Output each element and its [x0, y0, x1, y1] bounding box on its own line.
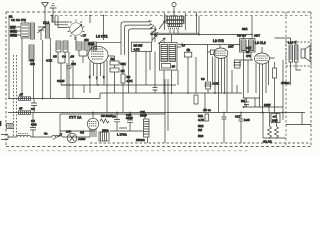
phono jack J1 [172, 2, 176, 16]
band switch S1 [10, 23, 29, 38]
output transformer T2 [288, 41, 298, 63]
svg-text:30K: 30K [121, 62, 127, 66]
wire: AVC segment y85 [61, 84, 176, 86]
capacitor C10 [126, 113, 133, 132]
svg-text:2: 2 [103, 75, 105, 79]
svg-text:0.05: 0.05 [244, 118, 250, 122]
capacitor C9 [112, 113, 120, 132]
wire: dashed bottom bus [90, 142, 311, 144]
resistor R4 [194, 95, 198, 104]
wires: power section [60, 79, 168, 143]
svg-text:C17: C17 [235, 115, 241, 119]
inductor on left bus [18, 93, 31, 101]
svg-text:C8: C8 [201, 77, 205, 81]
svg-text:1500Ω: 1500Ω [136, 138, 145, 142]
label bottom left [0, 121, 2, 126]
capacitor C8 on x207.5 [201, 77, 212, 89]
capacitor C17 [235, 113, 250, 144]
electrolytic C18 [271, 114, 280, 123]
label 470k right [281, 81, 290, 85]
IF transformer Z1 [159, 13, 185, 30]
svg-text:CH 9U: CH 9U [237, 34, 246, 38]
rectifier tube V4 CYY [69, 113, 109, 142]
wires: bottom right [263, 113, 286, 144]
pilot lamp [66, 130, 86, 143]
audio output tube V3 [246, 41, 270, 64]
svg-text:4.7K: 4.7K [46, 59, 53, 63]
wires: Z2 leads [164, 35, 181, 93]
oscillator coil L3 [29, 45, 34, 61]
svg-text:C1A: C1A [43, 21, 50, 25]
svg-text:L8 CY2: L8 CY2 [213, 39, 224, 43]
wire: right segment y107 [243, 106, 283, 108]
mains plug P1 [1, 135, 8, 140]
svg-text:B1: B1 [9, 15, 13, 19]
speaker module boundary [286, 42, 311, 66]
wire: left bus y98.5 [8, 98, 100, 100]
svg-text:JU: JU [172, 65, 176, 69]
pin labels V1 [89, 75, 105, 80]
svg-text:MΩ: MΩ [0, 121, 2, 126]
wires: right column [240, 60, 283, 113]
wires: V3 pins [256, 58, 275, 113]
IF transformer Z3 [237, 34, 260, 53]
antenna ANT [42, 3, 49, 23]
wire: vertical from rail x252 [251, 16, 253, 39]
wire: dashed gang link [13, 55, 15, 137]
svg-text:1/2W: 1/2W [264, 103, 271, 107]
wires: output transformer leads [275, 38, 302, 85]
wire: dashed gang link 2 [16, 55, 18, 137]
resistor box R5 under loop [132, 42, 152, 51]
svg-text:C1 C2 470: C1 C2 470 [11, 18, 26, 22]
svg-text:4F: 4F [19, 107, 23, 111]
loop antenna / osc tank L6 with tuning arrows [121, 20, 158, 55]
wires: loop leads to bus [129, 52, 147, 94]
capacitor C4 below bus [31, 99, 37, 127]
label L3 CK1 [96, 35, 108, 39]
svg-text:AK7: AK7 [228, 45, 234, 49]
svg-text:6A2: 6A2 [88, 42, 94, 46]
svg-text:4.7K: 4.7K [213, 82, 219, 86]
label row C1 C2 [9, 15, 26, 23]
wire: right border dashed [310, 12, 312, 147]
svg-text:C5: C5 [53, 55, 57, 59]
trimmer C5 [76, 42, 82, 50]
wire: speaker zone bottom [286, 113, 311, 125]
svg-text:30uF: 30uF [140, 114, 147, 118]
coil L5 [63, 41, 68, 52]
ground GND [50, 4, 57, 22]
wires: converter tube pins [90, 61, 107, 113]
wires: misc mid verticals [84, 43, 269, 113]
wire: bottom border dashed [6, 146, 311, 148]
svg-text:1M: 1M [198, 128, 203, 132]
wire: left border dashed [5, 12, 7, 147]
resistor R15 [275, 113, 279, 139]
wire: right segment y98 [243, 97, 260, 99]
wire: grid lead vertical x103.5 [103, 15, 105, 40]
capacitor box C19 [234, 60, 242, 68]
resistor R3 [121, 74, 134, 83]
svg-text:C9: C9 [112, 115, 116, 119]
wire: mains heater line [8, 136, 90, 138]
svg-text:10M: 10M [272, 119, 278, 123]
svg-text:4.7K: 4.7K [198, 118, 205, 122]
svg-text:30uF: 30uF [126, 116, 133, 120]
wire: ground bus y112.5 [8, 112, 305, 114]
svg-text:R8: R8 [241, 99, 245, 103]
wire: dashed partition at speaker section [285, 12, 287, 147]
svg-text:0.02: 0.02 [31, 123, 37, 127]
svg-text:SW2: SW2 [10, 34, 17, 38]
svg-text:C9 30uF: C9 30uF [101, 114, 112, 118]
svg-text:L9 CL2: L9 CL2 [255, 41, 266, 45]
electrolytic C11 [140, 110, 149, 137]
svg-text:L3 CK1: L3 CK1 [96, 35, 108, 39]
svg-text:C4: C4 [62, 55, 66, 59]
RF coil L2 [46, 24, 50, 38]
speaker SP [301, 46, 310, 62]
wire: vertical from rail x196.5 [196, 12, 198, 33]
label AC m [203, 108, 211, 112]
converter tube V1 6A2 [88, 42, 108, 64]
wires: R1-R3 connections [108, 56, 123, 113]
svg-text:4u: 4u [44, 132, 48, 136]
svg-text:.47: .47 [19, 93, 23, 97]
svg-text:470: 470 [30, 62, 35, 66]
svg-text:5: 5 [89, 75, 91, 79]
power unit box edge [60, 114, 165, 137]
svg-text:R1: R1 [111, 57, 115, 61]
IF transformer Z2 [158, 38, 177, 70]
wire: antenna feed left [8, 16, 10, 99]
svg-text:L 170Ω: L 170Ω [117, 133, 127, 137]
small resistors R1 R2 near V1 [110, 57, 127, 73]
svg-text:470: 470 [71, 62, 76, 66]
svg-text:7: 7 [96, 76, 98, 80]
capacitor C4b to mains [30, 113, 36, 138]
svg-text:AK7: AK7 [254, 34, 260, 38]
svg-text:A300: A300 [78, 137, 86, 141]
svg-text:4.7K: 4.7K [127, 79, 134, 83]
resistor R14 [268, 113, 272, 139]
svg-text:C5 25: C5 25 [57, 79, 65, 83]
IF amp tube V2 [178, 39, 240, 58]
wires: V2 pins [207, 52, 227, 113]
resistor labels column R11-R13 [198, 114, 209, 138]
capacitor C13 [241, 98, 249, 107]
svg-text:1500: 1500 [102, 129, 109, 133]
tuning gang capacitor C1A [38, 21, 51, 40]
svg-text:470: 470 [246, 54, 251, 58]
resistor R6 beside Z2 [182, 44, 192, 58]
mains coil L7 [12, 134, 35, 138]
wire: top border dashed line [6, 11, 311, 13]
capacitor C3 on osc coil lead [67, 52, 77, 99]
capacitor C16 on x155 [153, 52, 158, 94]
svg-text:CYY 1A: CYY 1A [69, 116, 82, 120]
label 4.7K mid [213, 82, 219, 86]
coil L4 [56, 41, 61, 52]
svg-text:L10 Y: L10 Y [288, 41, 296, 45]
svg-text:C7: C7 [83, 34, 87, 38]
wire: mid bus y93 [100, 93, 242, 99]
svg-text:R13: R13 [198, 134, 204, 138]
wire: long vertical x207.5 [207, 45, 209, 82]
wire: vertical from rail x199 [198, 16, 200, 35]
wires: R6 leads [187, 48, 189, 93]
svg-text:1.5-: 1.5- [66, 130, 71, 134]
resistor R10 [273, 68, 277, 78]
inductor on ground bus [18, 107, 31, 115]
switch K1 [44, 132, 62, 140]
svg-text:.05: .05 [70, 55, 74, 59]
label half-watt [264, 103, 271, 107]
wires: Z1 leads to bus [170, 30, 178, 34]
resistor R7 in power box [100, 114, 112, 133]
wire: below C8 [207, 89, 209, 93]
svg-text:470kΩ: 470kΩ [281, 81, 290, 85]
wires: Z3 leads [232, 35, 251, 98]
trimmer C6 [84, 42, 90, 50]
gang trimmer C1B [7, 124, 14, 129]
wire: double bus under Z1 [150, 33, 252, 34]
wires: switch feeds [52, 16, 90, 43]
svg-text:C4: C4 [31, 107, 35, 111]
label C5 25 [57, 79, 65, 83]
wire: faint extra bottom dashes [8, 150, 250, 152]
wires: left section verticals [22, 19, 87, 99]
svg-text:4.7K: 4.7K [134, 48, 141, 52]
wire: trimmer row to loop [97, 41, 121, 43]
trimmer row C5b [84, 38, 97, 50]
wire: second top dashed rail [50, 15, 311, 17]
rotary band switch S2 [68, 20, 87, 39]
antenna coil L1 [31, 23, 35, 39]
svg-text:6K4: 6K4 [242, 27, 248, 31]
label 6K4 [242, 27, 248, 31]
labels above coils [30, 55, 74, 67]
svg-text:AC m: AC m [203, 108, 211, 112]
capacitor C12 [222, 113, 227, 144]
